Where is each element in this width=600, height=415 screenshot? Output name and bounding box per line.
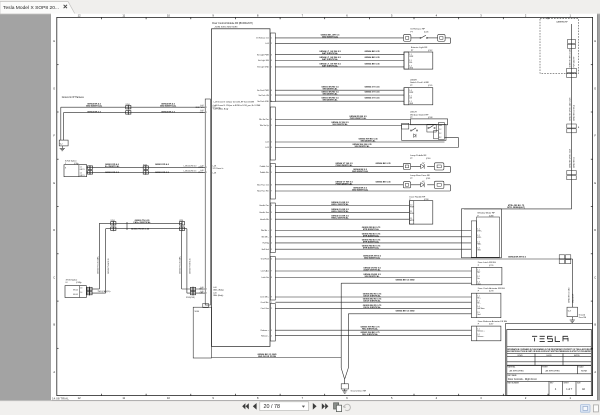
- wire module ground bus: [212, 357, 342, 359]
- svg-text:B: B: [53, 323, 55, 327]
- svg-text:7: 7: [271, 191, 272, 193]
- svg-text:GEN01 RD 4.0: GEN01 RD 4.0: [155, 163, 170, 166]
- title block divider under logo: [507, 346, 592, 348]
- svg-text:Latch Sw: Latch Sw: [261, 276, 269, 279]
- svg-text:1.1: 1.1: [477, 328, 479, 330]
- nav last-page button: [322, 403, 329, 409]
- svg-text:8: 8: [271, 101, 272, 103]
- svg-text:H: H: [53, 39, 55, 43]
- svg-text:REL IDENTICAL: REL IDENTICAL: [362, 328, 379, 331]
- svg-text:CAN-: CAN-: [199, 292, 204, 295]
- svg-text:1.2: 1.2: [477, 301, 479, 303]
- svg-text:G: G: [594, 86, 596, 90]
- svg-text:REL IDENTICAL: REL IDENTICAL: [362, 333, 379, 336]
- title block material row: [541, 365, 543, 373]
- connector camera d: [567, 171, 576, 175]
- svg-text:MTR- RD/BU(ALT): MTR- RD/BU(ALT): [507, 206, 525, 209]
- svg-text:1.2: 1.2: [477, 235, 479, 237]
- svg-text:L-02: L-02: [265, 142, 269, 144]
- svg-text:6: 6: [271, 90, 272, 92]
- svg-text:Win Mtr -: Win Mtr -: [262, 236, 270, 239]
- svg-text:PWR CAM RF: PWR CAM RF: [572, 57, 575, 68]
- svg-text:CNCH IDENTICAL: CNCH IDENTICAL: [363, 300, 381, 303]
- nav pages icon: [334, 403, 342, 412]
- wire IP ground 2: [64, 111, 206, 113]
- svg-text:5: 5: [271, 67, 272, 69]
- svg-text:1 of 7: 1 of 7: [566, 388, 573, 391]
- svg-text:GND IDENTICAL: GND IDENTICAL: [364, 257, 381, 260]
- svg-text:X705 Splice: X705 Splice: [66, 279, 78, 281]
- wire ground drop right: [347, 314, 349, 368]
- svg-text:Win Mtr +: Win Mtr +: [261, 229, 269, 232]
- svg-text:PWM IDENTICAL: PWM IDENTICAL: [336, 164, 353, 167]
- svg-text:Ground Door RH: Ground Door RH: [351, 390, 367, 393]
- wires to exterior light: [275, 54, 404, 56]
- svg-text:SIZE: SIZE: [577, 383, 581, 385]
- connector inline X704 b: [143, 166, 146, 169]
- svg-text:GEN04 BK 0.5 GND: GEN04 BK 0.5 GND: [395, 279, 415, 282]
- svg-text:GEN04 BK 0.35: GEN04 BK 0.35: [364, 50, 380, 53]
- connector ground door RF: [341, 384, 348, 389]
- svg-text:Win Sw Pwr: Win Sw Pwr: [259, 119, 269, 121]
- svg-text:GEN09 TN BK 0.35: GEN09 TN BK 0.35: [190, 258, 192, 274]
- svg-text:CAN+ IDENTICAL: CAN+ IDENTICAL: [133, 221, 151, 224]
- wires to lamp puddle: [275, 165, 403, 167]
- svg-text:Hall Sig: Hall Sig: [263, 243, 269, 245]
- svg-text:1.2: 1.2: [80, 173, 82, 175]
- svg-text:2066H: 2066H: [410, 79, 417, 81]
- module DCM1 Door Control Module RF box: [212, 29, 271, 347]
- svg-text:2.2: 2.2: [439, 133, 441, 135]
- svg-text:-X090 X091 X092 X093: -X090 X091 X092 X093: [214, 26, 238, 28]
- svg-text:Door RH: Door RH: [579, 316, 587, 319]
- wire to int release RF: [275, 37, 403, 39]
- svg-text:Handle Pwr: Handle Pwr: [260, 205, 270, 207]
- wire CAN pair left risers: [98, 223, 100, 289]
- svg-text:GEN04 BK 0.35: GEN04 BK 0.35: [375, 180, 391, 183]
- wires to lamp near face: [275, 184, 403, 186]
- svg-text:G-2: G-2: [60, 143, 63, 145]
- svg-text:Lamp Puddle RF: Lamp Puddle RF: [410, 155, 427, 157]
- wire window switch returns: [275, 141, 444, 143]
- svg-text:Door Release Actuator FR RH: Door Release Actuator FR RH: [478, 320, 508, 323]
- svg-text:8: 8: [271, 205, 272, 207]
- svg-text:Release -: Release -: [261, 335, 269, 337]
- svg-text:GEN07 BK WH 0.5 CAM: GEN07 BK WH 0.5 CAM: [568, 48, 571, 67]
- svg-text:Cinch Mtr+: Cinch Mtr+: [260, 296, 269, 299]
- svg-text:CNCH IDENTICAL: CNCH IDENTICAL: [363, 295, 381, 298]
- svg-text:1.1: 1.1: [80, 167, 82, 169]
- svg-text:PWM IDENTICAL: PWM IDENTICAL: [336, 182, 353, 185]
- svg-text:Int Release Out: Int Release Out: [256, 37, 269, 40]
- svg-text:MTR IDENTICAL: MTR IDENTICAL: [363, 240, 380, 243]
- svg-text:L-08 (C4) RD 4.0: L-08 (C4) RD 4.0: [184, 166, 197, 168]
- svg-text:Tesla Model X SOP8 20...: Tesla Model X SOP8 20...: [3, 5, 59, 11]
- wires to door handle: [275, 205, 409, 207]
- connector right ground termination: [567, 307, 578, 317]
- svg-text:BAT IDENTICAL: BAT IDENTICAL: [322, 58, 339, 61]
- svg-text:5: 5: [271, 172, 272, 174]
- svg-text:4: 4: [271, 243, 272, 245]
- wire X704 feed 1: [87, 167, 206, 169]
- svg-text:Gnd: Gnd: [477, 314, 480, 316]
- svg-text:DRWN: DRWN: [518, 355, 524, 357]
- title block TESLA band: [507, 330, 592, 396]
- wire window switch output loop: [445, 136, 459, 138]
- svg-text:GN 2.5: GN 2.5: [80, 175, 85, 177]
- svg-text:GEN07 BK WH 0.5 LVDS: GEN07 BK WH 0.5 LVDS: [569, 148, 571, 168]
- svg-text:Ext Light GND: Ext Light GND: [257, 66, 269, 69]
- svg-text:4: 4: [271, 335, 272, 337]
- wire latch ground to door ground: [341, 282, 471, 284]
- svg-text:Win Sw Up: Win Sw Up: [260, 125, 269, 127]
- svg-text:GN 0.5: GN 0.5: [73, 289, 78, 291]
- wire window motor to camera run: [464, 208, 572, 210]
- connector camera a: [568, 40, 576, 44]
- svg-text:HNDL IDENTICAL: HNDL IDENTICAL: [331, 210, 349, 213]
- svg-text:1.1: 1.1: [477, 229, 479, 231]
- svg-text:12V B+: 12V B+: [198, 167, 204, 169]
- svg-text:GEN04 BK WH 0.5: GEN04 BK WH 0.5: [508, 256, 527, 259]
- svg-text:3: 3: [271, 237, 272, 239]
- svg-text:2.1: 2.1: [477, 241, 479, 243]
- svg-text:HNDL IDENTICAL: HNDL IDENTICAL: [331, 203, 349, 206]
- svg-text:SW IDENTICAL: SW IDENTICAL: [354, 145, 370, 148]
- svg-text:Near Face Rtn: Near Face Rtn: [257, 190, 269, 193]
- connector inline CAN at splice: [87, 287, 90, 290]
- svg-text:E: E: [53, 181, 55, 185]
- svg-text:3: 3: [271, 330, 272, 332]
- svg-text:3: 3: [271, 54, 272, 56]
- svg-text:TN05 (CAN)(L5)+: TN05 (CAN)(L5)+: [98, 290, 111, 293]
- svg-text:L-03: L-03: [265, 147, 269, 149]
- svg-text:12V Power In: 12V Power In: [213, 168, 224, 170]
- svg-text:Hall Gnd: Hall Gnd: [262, 249, 269, 251]
- svg-text:Door Controls - Right Front: Door Controls - Right Front: [508, 378, 537, 381]
- wire IP ground drops: [60, 107, 62, 140]
- svg-text:9: 9: [271, 119, 272, 121]
- wire CAN pair arch top: [99, 222, 181, 224]
- svg-text:GEN07 BK 0.5 SHLD: GEN07 BK 0.5 SHLD: [573, 104, 575, 121]
- svg-text:CHCKD: CHCKD: [546, 355, 553, 357]
- svg-text:GND IDENTICAL: GND IDENTICAL: [352, 189, 369, 192]
- svg-text:GND DOOR FR RH: GND DOOR FR RH: [258, 356, 277, 358]
- svg-text:B+ IDENTICAL: B+ IDENTICAL: [105, 165, 120, 168]
- svg-text:NONE: NONE: [581, 371, 588, 373]
- wire right ground drop: [572, 263, 574, 308]
- svg-text:9: 9: [271, 297, 272, 299]
- svg-text:GEN09 TN BK 0.35: GEN09 TN BK 0.35: [131, 228, 150, 230]
- svg-text:SHEET: SHEET: [564, 383, 569, 385]
- svg-text:Ext Light PWR: Ext Light PWR: [257, 53, 269, 56]
- svg-text:3.2: 3.2: [439, 137, 441, 139]
- svg-text:GND IDENTICAL: GND IDENTICAL: [86, 105, 103, 108]
- svg-text:A: A: [594, 370, 596, 374]
- ground symbol door RH right: [571, 318, 573, 320]
- nav prev button: [253, 403, 257, 410]
- svg-text:Puddle Rtn: Puddle Rtn: [260, 171, 269, 174]
- svg-text:Cinch Mtr-: Cinch Mtr-: [261, 301, 270, 304]
- svg-text:L-08: L-08: [213, 172, 217, 174]
- svg-text:1.4: 1.4: [80, 292, 82, 294]
- svg-text:Window Motor RF: Window Motor RF: [477, 212, 495, 215]
- svg-text:Door Latch FR RH: Door Latch FR RH: [478, 261, 496, 264]
- svg-text:GND PWR: GND PWR: [195, 107, 204, 109]
- svg-text:CNCH IDENTICAL: CNCH IDENTICAL: [363, 306, 381, 309]
- svg-text:SW IDENTICAL: SW IDENTICAL: [360, 140, 376, 143]
- ground symbol door RF: [344, 389, 346, 391]
- svg-text:FINISH: FINISH: [542, 367, 548, 369]
- svg-text:X905(C08): X905(C08): [186, 297, 195, 299]
- svg-text:GND IDENTICAL: GND IDENTICAL: [160, 105, 177, 108]
- svg-text:GEN09 TN 0.35 CAN+: GEN09 TN 0.35 CAN+: [179, 256, 182, 274]
- svg-text:X05: X05: [439, 125, 442, 127]
- bottom toolbar: [0, 401, 600, 415]
- svg-text:GEN04 BK 0.35: GEN04 BK 0.35: [364, 56, 380, 59]
- svg-text:Release -: Release -: [477, 336, 484, 338]
- title block approvals table: [507, 352, 592, 354]
- svg-text:4: 4: [271, 166, 272, 168]
- svg-text:C: C: [53, 275, 55, 279]
- svg-text:AS SPECIFIED: AS SPECIFIED: [546, 370, 561, 373]
- svg-text:206LH: 206LH: [410, 112, 417, 114]
- svg-text:1.1: 1.1: [477, 295, 479, 297]
- svg-text:(C08)p: (C08)p: [76, 282, 82, 284]
- svg-text:Lamp Rear Face RF: Lamp Rear Face RF: [410, 174, 430, 177]
- svg-text:SW IDENTICAL: SW IDENTICAL: [322, 93, 338, 96]
- wires to window switch: [275, 119, 410, 121]
- svg-text:1.2: 1.2: [477, 334, 479, 336]
- svg-text:GND DOOR: GND DOOR: [572, 293, 574, 303]
- svg-text:1.4: 1.4: [477, 306, 479, 308]
- svg-text:1: 1: [271, 219, 272, 221]
- svg-text:BAT IDENTICAL: BAT IDENTICAL: [322, 52, 339, 55]
- svg-text:Int Release RF: Int Release RF: [410, 28, 425, 31]
- svg-text:Sw Pack PWR: Sw Pack PWR: [257, 90, 269, 92]
- connector IP ground termination: [59, 140, 68, 146]
- svg-text:GEN09 TN BK 0.35: GEN09 TN BK 0.35: [108, 258, 110, 274]
- svg-text:X251: X251: [143, 164, 147, 166]
- svg-text:C: C: [594, 275, 596, 279]
- wires to window motor: [275, 230, 471, 232]
- svg-text:14.08 TRIAL: 14.08 TRIAL: [52, 397, 69, 401]
- svg-text:Release +: Release +: [477, 330, 484, 332]
- svg-text:ANY REPRODUCTION IN PART OR WH: ANY REPRODUCTION IN PART OR WHOLE WITHOU…: [507, 350, 591, 353]
- nav next button: [313, 403, 317, 410]
- svg-text:L-08 Green B: 12Vpwr to BCM f: L-08 Green B: 12Vpwr to BCM for DCM_pwr,…: [214, 104, 262, 107]
- svg-text:2.2: 2.2: [477, 248, 479, 250]
- ground symbol IP: [61, 147, 63, 149]
- svg-text:1.5: 1.5: [477, 312, 479, 314]
- wire IP ground 1: [61, 106, 205, 108]
- right toolbar icon 2: [593, 405, 598, 412]
- svg-text:GND IDENTICAL: GND IDENTICAL: [352, 170, 369, 173]
- svg-text:BAT IDENTICAL: BAT IDENTICAL: [322, 64, 339, 67]
- svg-text:1: 1: [271, 38, 272, 40]
- svg-text:GEN04 BK 2.5: GEN04 BK 2.5: [161, 111, 176, 114]
- svg-text:H: H: [594, 39, 596, 43]
- svg-text:5: 5: [271, 249, 272, 251]
- svg-text:SW IDENTICAL: SW IDENTICAL: [364, 275, 380, 278]
- svg-text:B: B: [594, 323, 596, 327]
- connector right ground inline: [559, 255, 564, 259]
- svg-text:Release +: Release +: [261, 330, 269, 332]
- svg-text:L-08 Green B: 12Vpwr for DCM_: L-08 Green B: 12Vpwr for DCM_RF front DO…: [214, 101, 255, 104]
- svg-text:D: D: [53, 228, 55, 232]
- svg-text:8: 8: [271, 277, 272, 279]
- svg-text:GEN01 RD 2.5: GEN01 RD 2.5: [105, 172, 120, 174]
- svg-text:PWR IDENTICAL: PWR IDENTICAL: [350, 117, 367, 120]
- svg-text:MTR IDENTICAL: MTR IDENTICAL: [363, 234, 380, 237]
- connector inline CAN b: [179, 222, 182, 225]
- svg-text:Sw Pack GND: Sw Pack GND: [257, 101, 269, 103]
- wire CAN pair horizontal lower left: [86, 288, 99, 290]
- wires to switch pack: [275, 89, 404, 91]
- svg-text:1.8: 1.8: [80, 288, 82, 290]
- svg-text:GEN04 BK 2.5: GEN04 BK 2.5: [87, 111, 102, 114]
- wire CAN pair into module: [182, 288, 206, 290]
- svg-text:Door Control Module RF (BCFRA/: Door Control Module RF (BCFRA/CH): [212, 22, 253, 25]
- connector X093 left strip: [205, 99, 210, 305]
- wires to door latch: [275, 270, 471, 272]
- svg-text:7: 7: [271, 95, 272, 97]
- connector X090 right strip segments: [270, 33, 275, 102]
- svg-text:L-08 (C4) RD 2.5: L-08 (C4) RD 2.5: [184, 170, 197, 172]
- svg-text:SW IDENTICAL: SW IDENTICAL: [322, 99, 338, 102]
- svg-text:1: 1: [271, 125, 272, 127]
- wire ground drop left: [340, 283, 342, 368]
- svg-text:20 / 78: 20 / 78: [264, 404, 281, 410]
- wire X704 feed 2: [87, 171, 206, 173]
- svg-text:Ground In: Ground In: [213, 108, 221, 110]
- window switch internals: [402, 125, 446, 141]
- svg-text:Ground in IP Harness: Ground in IP Harness: [62, 96, 85, 99]
- svg-text:7: 7: [271, 271, 272, 273]
- svg-text:X251: X251: [111, 220, 115, 222]
- svg-text:D: D: [594, 228, 596, 232]
- svg-text:12V B+: 12V B+: [198, 172, 204, 174]
- svg-text:GEN04 BK 0.5 GND: GEN04 BK 0.5 GND: [395, 309, 415, 312]
- svg-text:Sw Pack LIN: Sw Pack LIN: [259, 95, 270, 97]
- svg-text:X094: X094: [195, 311, 199, 313]
- TESLA logo: [532, 336, 568, 341]
- nav first-page button: [242, 403, 249, 409]
- svg-text:Exterior Light RF: Exterior Light RF: [411, 46, 428, 49]
- svg-text:GEN07 BK WH 0.5 CAM LVDS: GEN07 BK WH 0.5 CAM LVDS: [568, 97, 571, 121]
- svg-text:GEN04 BK 0.35: GEN04 BK 0.35: [364, 62, 380, 65]
- svg-text:CAMERA RF: CAMERA RF: [556, 21, 568, 24]
- svg-text:2: 2: [271, 308, 272, 310]
- connector inline CAN c: [190, 287, 193, 290]
- wire camera vertical run: [571, 24, 573, 209]
- svg-text:Door Handle RF: Door Handle RF: [409, 195, 425, 198]
- svg-text:1.2: 1.2: [477, 276, 479, 278]
- connector camera c: [567, 124, 576, 128]
- svg-text:MTR IDENTICAL: MTR IDENTICAL: [363, 247, 380, 250]
- svg-text:L-04: L-04: [265, 43, 269, 45]
- svg-text:Handle Mtr: Handle Mtr: [260, 218, 269, 221]
- svg-text:GND IDENTICAL: GND IDENTICAL: [322, 35, 339, 38]
- svg-text:2: 2: [271, 43, 272, 45]
- module lower-left pin box: [193, 307, 211, 358]
- camera dashed enclosure: [540, 19, 579, 74]
- svg-text:A: A: [53, 370, 55, 374]
- connector inline X704 a: [87, 166, 90, 169]
- svg-text:Near Face Out: Near Face Out: [257, 184, 269, 187]
- svg-text:GEN04 GY 0.35: GEN04 GY 0.35: [365, 97, 381, 100]
- right toolbar icon selected: [581, 405, 591, 413]
- svg-text:Puddle Out: Puddle Out: [260, 165, 269, 168]
- svg-text:GEN01 RD 2.5: GEN01 RD 2.5: [155, 172, 170, 174]
- wires to door release actuator: [275, 329, 471, 331]
- svg-text:GEN04 GY 0.35: GEN04 GY 0.35: [365, 91, 381, 94]
- svg-text:G: G: [53, 86, 55, 90]
- svg-text:1: 1: [271, 302, 272, 304]
- svg-text:AS SPECIFIED: AS SPECIFIED: [510, 370, 525, 373]
- svg-text:GEN07 BK 0.5: GEN07 BK 0.5: [573, 157, 575, 168]
- tab bar: [0, 0, 600, 14]
- svg-text:Ext Light SIG: Ext Light SIG: [258, 59, 269, 62]
- wire CAN pair right risers: [181, 223, 183, 289]
- svg-text:GN 2.5: GN 2.5: [80, 169, 85, 171]
- svg-text:1.2: 1.2: [439, 129, 441, 131]
- svg-text:GEN04 GY 0.35: GEN04 GY 0.35: [365, 86, 381, 89]
- svg-text:4: 4: [271, 60, 272, 62]
- nav page field: [260, 402, 309, 411]
- connector X220 inline on IP ground pair: [126, 106, 129, 109]
- svg-text:CAN+ (Body): CAN+ (Body): [213, 289, 224, 292]
- svg-text:Latch Ajar: Latch Ajar: [261, 270, 269, 273]
- motor window motor RF box: [462, 209, 502, 258]
- connector inline CAN a: [111, 222, 114, 225]
- title block outer: [506, 324, 593, 396]
- wire latch feed to right ground run: [275, 258, 559, 260]
- svg-text:X251: X251: [179, 220, 183, 222]
- svg-text:Gnd: Gnd: [477, 283, 480, 285]
- zone tick marks: [101, 17, 103, 19]
- svg-text:Switch Pack LH RF: Switch Pack LH RF: [410, 81, 430, 84]
- svg-text:6: 6: [271, 185, 272, 187]
- svg-text:GEN09 TN 0.35 CAN+: GEN09 TN 0.35 CAN+: [96, 256, 99, 274]
- svg-text:X251: X251: [126, 104, 130, 106]
- svg-text:9: 9: [271, 212, 272, 214]
- svg-text:1.4: 1.4: [477, 281, 479, 283]
- svg-text:G-8: G-8: [568, 310, 571, 312]
- svg-text:1.1: 1.1: [477, 269, 479, 271]
- svg-text:Window Switch RF: Window Switch RF: [410, 113, 429, 116]
- connector camera b at dashed edge: [567, 69, 577, 73]
- svg-text:GEN04 BK 0.5 GND: GEN04 BK 0.5 GND: [568, 287, 570, 303]
- svg-text:AJAR IDENTICAL: AJAR IDENTICAL: [363, 269, 381, 272]
- wire int release return: [275, 42, 450, 44]
- wires to door cinch actuator: [275, 296, 471, 298]
- svg-text:2: 2: [271, 230, 272, 232]
- nav history icon (disabled): [343, 404, 350, 410]
- svg-text:GN 0.5: GN 0.5: [73, 294, 78, 296]
- svg-text:MTR+: MTR+: [477, 231, 481, 233]
- svg-text:3: 3: [271, 147, 272, 149]
- svg-text:SW IDENTICAL: SW IDENTICAL: [322, 88, 338, 91]
- wire cinch ground to door ground: [348, 313, 471, 315]
- ground twist converge: [341, 368, 348, 379]
- svg-text:Gnd Feed: Gnd Feed: [261, 259, 269, 261]
- svg-text:2: 2: [271, 142, 272, 144]
- svg-text:Handle Sns: Handle Sns: [260, 212, 269, 214]
- svg-text:SIG IDENTICAL: SIG IDENTICAL: [332, 123, 348, 126]
- svg-text:HNDL IDENTICAL: HNDL IDENTICAL: [331, 217, 349, 220]
- connector int release right: [438, 35, 446, 42]
- svg-text:6: 6: [271, 259, 272, 261]
